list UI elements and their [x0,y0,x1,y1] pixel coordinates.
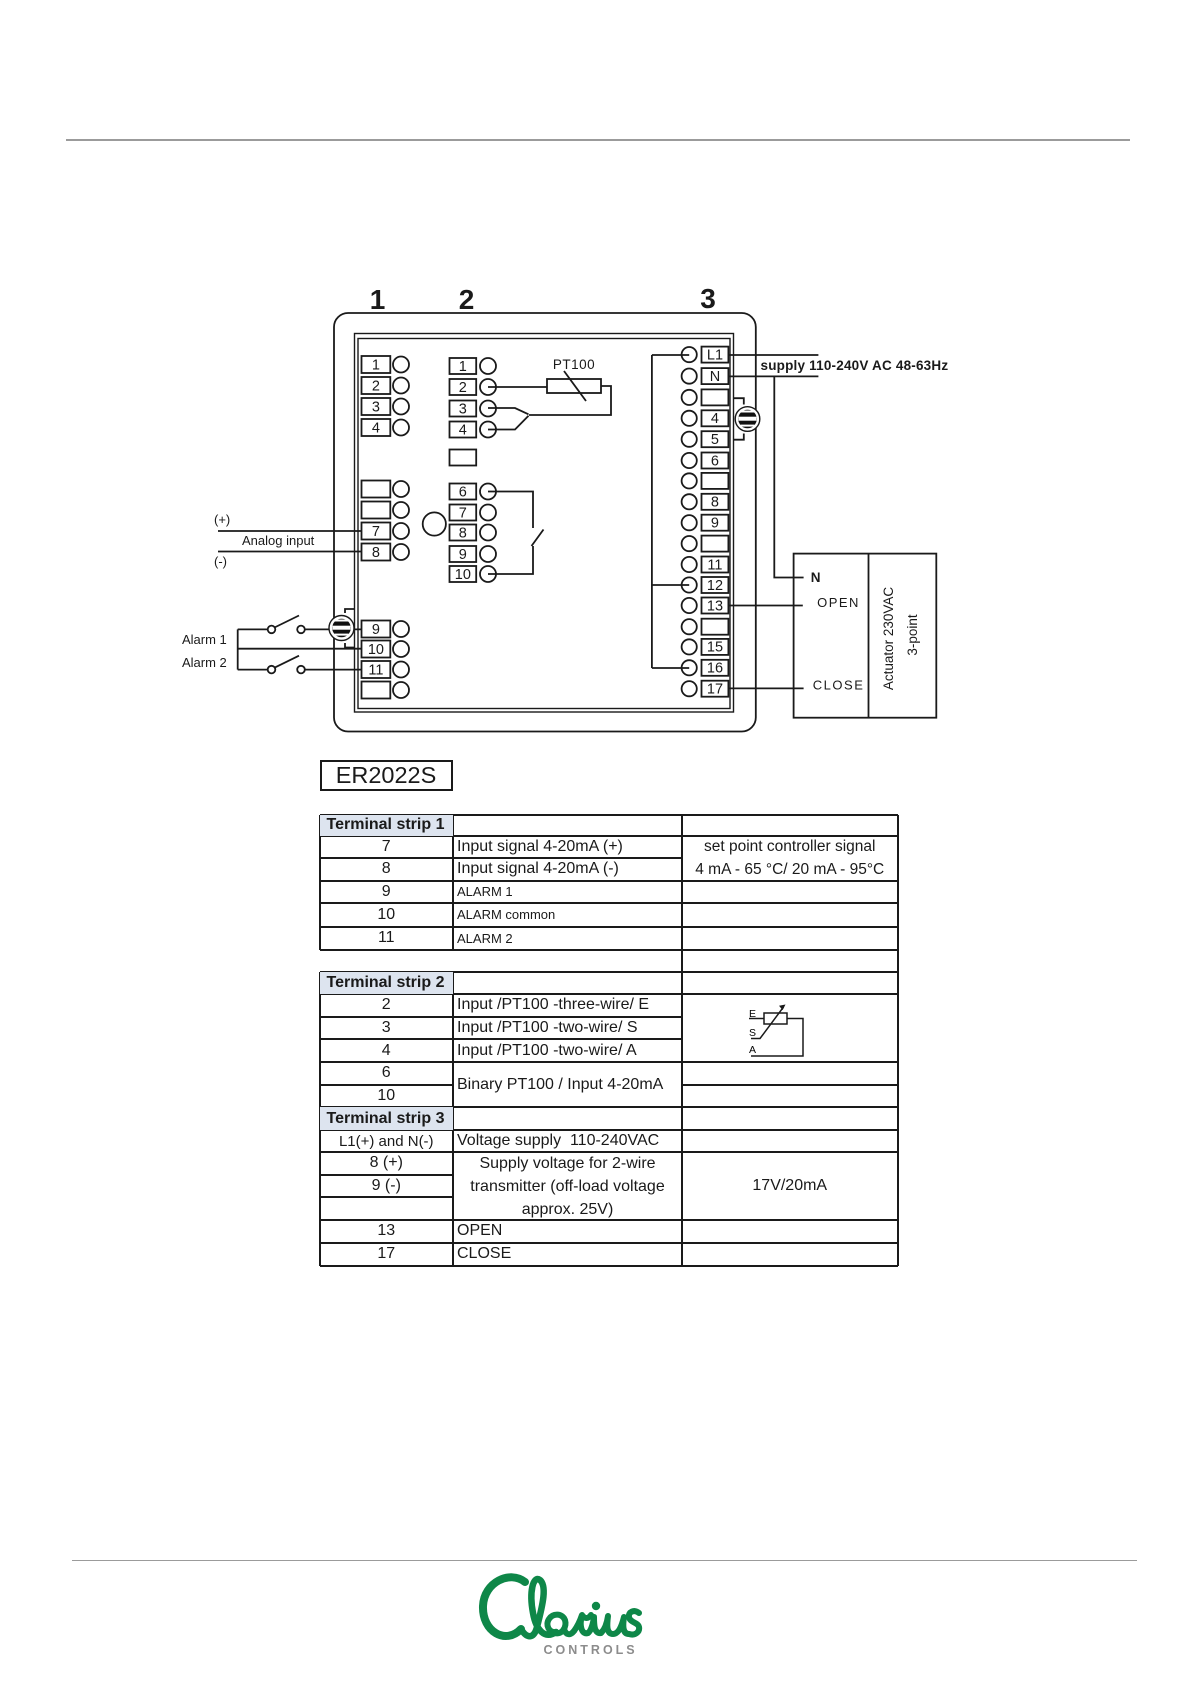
switch alarm2 left contact [268,666,276,674]
terminal 3-blank [682,536,729,552]
ER2022S type label box [320,760,453,791]
wire switch to terminal 1-11 [305,669,362,671]
cell input signal + [453,836,682,859]
svg-text:Alarm 2: Alarm 2 [182,655,227,670]
svg-text:9: 9 [459,547,467,563]
svg-text:9: 9 [372,622,380,638]
terminal 1-8 [362,544,410,561]
controller inner panel (double border) [355,334,734,713]
svg-text:Actuator 230VAC: Actuator 230VAC [881,587,896,691]
switch alarm2 blade [275,656,300,668]
svg-text:17: 17 [707,682,723,698]
terminal 3-blank [682,619,729,635]
actuator box [794,554,937,718]
table row line 8/9 col1 [320,1174,454,1176]
terminal 1-3 [362,398,410,415]
sensor wire right [751,1019,803,1057]
wire analog input (+) to terminal 1-7 [218,530,362,532]
terminal 1-9 [362,621,410,638]
terminal 3-blank [682,473,729,489]
indicator circle between strips [423,512,446,535]
sensor arrow head [779,1005,786,1011]
table row line y=971.5 [320,971,898,973]
terminal 2-9 [450,546,497,562]
wire L1 to supply [728,354,818,356]
wire switch to terminal 1-9 [305,628,362,630]
wire bus stub to terminal 3-L1 [652,354,689,356]
table row line y=1265.5 [320,1265,898,1267]
svg-text:1: 1 [459,359,467,375]
svg-text:12: 12 [707,578,723,594]
cell input signal - [453,858,682,881]
cell 17 [320,1243,454,1266]
terminal 3-4 [682,410,729,426]
wire terminal 2-2 to PT100 [488,386,547,388]
table right border [897,815,899,1266]
cell 11 [320,927,454,950]
terminal 2-2 [450,379,497,395]
wire switch to terminal 2-10 [488,546,533,574]
svg-text:4: 4 [711,411,719,427]
cell set point controller signal [682,836,898,881]
svg-text:11: 11 [368,662,383,678]
terminal 3-13 [682,598,729,614]
wire terminal 3-17 to actuator CLOSE [728,687,803,689]
wire terminal 3-13 to actuator OPEN [728,605,802,607]
svg-text:3: 3 [700,283,716,314]
table row line y=880.5 [320,880,898,882]
table row line y=815 [320,814,898,816]
terminal 2-blank (no circle) [450,450,477,466]
switch alarm1 right contact [297,626,305,634]
table left border upper [319,815,321,950]
cell 10 [320,903,454,927]
svg-text:3: 3 [459,401,467,417]
cell ALARM 2 [453,927,682,950]
screw fixing left [329,609,355,648]
wire alarm common to terminal 1-10 [238,648,362,650]
svg-text:CLOSE: CLOSE [813,678,865,693]
wire terminal 2-3 to junction [488,408,529,414]
svg-text:3-point: 3-point [905,614,920,656]
header rule [66,139,1130,141]
terminal 2-3 [450,401,497,417]
logo letter i [588,1617,601,1633]
terminal 1-blank [362,481,410,498]
table row line 6/10 col3 [682,1084,898,1086]
svg-text:Analog input: Analog input [242,533,315,548]
screw fixing right [734,398,760,440]
table row line 7/8 (cols 1-2) [320,857,683,859]
svg-text:10: 10 [368,642,384,658]
svg-text:4: 4 [372,420,380,436]
terminal 3-L1 [682,347,729,363]
svg-text:3: 3 [372,399,380,415]
table row line y=903 [320,902,898,904]
terminal 3-17 [682,681,729,697]
terminal 3-6 [682,453,729,469]
sensor arrow diagonal [751,1007,784,1039]
terminal 3-blank [682,389,729,405]
footer rule [72,1560,1137,1562]
actuator divider [868,554,870,718]
cell PT100 three-wire E [453,994,682,1017]
wire bus stub to terminal 3-16 [652,667,689,669]
terminal 1-blank [362,502,410,519]
terminal 3-N [682,368,729,384]
table col2/col3 divider [681,815,683,1266]
table row line y=1152 [320,1151,898,1153]
table row line y=835.5 [320,835,898,837]
table row line 6/10 col1 [320,1084,454,1086]
svg-text:N: N [710,369,720,385]
terminal 3-9 [682,515,729,531]
terminal 3-11 [682,557,729,573]
wire alarm1 to switch [238,628,268,630]
table left border lower [319,972,321,1266]
svg-text:8: 8 [711,495,719,511]
svg-text:PT100: PT100 [553,357,595,372]
wire analog input (-) to terminal 1-8 [218,551,362,553]
svg-text:10: 10 [455,567,471,583]
cell 4 [320,1039,454,1062]
cell 2 [320,994,454,1017]
wire N to supply [728,375,818,377]
terminal 2-10 [450,566,497,582]
svg-text:N: N [811,570,821,585]
switch blade (binary input) [532,530,544,547]
terminal 1-4 [362,419,410,436]
logo letter s [629,1611,639,1634]
cell 10 strip2 [320,1085,454,1108]
table col1/col2 divider upper [452,815,454,950]
table row line 3/4 (cols 1-2) [320,1038,683,1040]
cell 6 [320,1062,454,1085]
svg-text:1: 1 [372,357,380,373]
logo letter C [483,1577,525,1636]
table header Terminal strip 3 [320,1107,454,1130]
table row line y=994 [320,993,898,995]
cell 13 [320,1220,454,1243]
wire bus stub to terminal 3-12 [652,584,689,586]
wire terminal 2-4 to junction [488,416,529,430]
cell PT100 two-wire S [453,1017,682,1040]
cell 17V 20mA [682,1152,898,1220]
table header Terminal strip 1 [320,815,454,836]
wire N down to actuator [774,376,803,577]
table row line y=926.9 [320,926,898,928]
svg-text:9: 9 [711,516,719,532]
svg-text:5: 5 [711,432,719,448]
svg-text:7: 7 [459,505,467,521]
wire bus L1-12-16 vertical [651,355,653,668]
cell ALARM common [453,903,682,927]
table row line 9/blank col1 [320,1196,454,1198]
cell 7 [320,836,454,859]
svg-text:4: 4 [459,422,467,438]
table row line y=1130 [320,1129,898,1131]
svg-text:(+): (+) [214,512,230,527]
terminal 2-7 [450,505,497,521]
cell binary PT100 [453,1062,682,1107]
svg-text:S: S [749,1027,756,1039]
sensor wire E [749,1018,764,1020]
sensor resistor body [764,1013,787,1024]
cell supply voltage 2-wire [453,1152,682,1220]
svg-text:Alarm 1: Alarm 1 [182,632,227,647]
sensor symbol PT100 connection [682,994,897,1062]
svg-text:11: 11 [707,557,722,573]
logo letter u [601,1616,629,1634]
switch alarm2 right contact [297,666,305,674]
logo letter r [574,1615,591,1631]
terminal 1-7 [362,523,410,540]
table row line y=1242.5 [320,1242,898,1244]
switch alarm1 blade [275,616,300,628]
wire alarm bus vertical [237,629,239,669]
terminal 3-8 [682,494,729,510]
cell PT100 two-wire A [453,1039,682,1062]
wiring diagram [170,280,960,740]
table col1/col2 divider lower [452,972,454,1266]
svg-text:7: 7 [372,524,380,540]
svg-text:15: 15 [707,640,723,656]
cell CLOSE [453,1243,682,1266]
switch alarm1 left contact [268,626,276,634]
wire PT100 right to junction [529,386,611,415]
resistor PT100 [547,379,601,393]
svg-text:13: 13 [707,598,723,614]
cell 9 [320,881,454,904]
table row line y=1107 [320,1106,898,1108]
svg-text:2: 2 [459,284,475,315]
table row line 2/3 (cols 1-2) [320,1016,683,1018]
svg-text:6: 6 [459,484,467,500]
terminal 1-2 [362,377,410,394]
cell 8 [320,858,454,881]
terminal 3-12 [682,577,729,593]
table row line y=1062 [320,1061,898,1063]
svg-text:2: 2 [372,378,380,394]
table header Terminal strip 2 [320,972,454,995]
svg-text:6: 6 [711,453,719,469]
svg-text:8: 8 [372,545,380,561]
svg-text:A: A [749,1044,756,1056]
terminal 1-10 [362,641,410,658]
terminal 1-blank [362,682,410,699]
terminal 2-8 [450,525,497,541]
svg-text:L1: L1 [707,347,723,363]
cell 8+ [320,1152,454,1175]
cell 3 [320,1017,454,1040]
cell L1 and N [320,1130,454,1152]
terminal 2-4 [450,422,497,438]
cell voltage supply [453,1130,682,1152]
terminal 2-1 [450,358,497,374]
logo letter l [521,1579,556,1636]
controller case outline [334,313,756,732]
svg-text:1: 1 [370,284,386,315]
logo letter o [547,1615,565,1634]
wire alarm2 to switch [238,669,268,671]
svg-text:supply 110-240V AC 48-63Hz: supply 110-240V AC 48-63Hz [761,358,949,373]
cell 9- [320,1175,454,1198]
svg-text:OPEN: OPEN [817,595,860,610]
table row line y=1220 [320,1219,898,1221]
Clorius logo script [400,1520,800,1684]
PT100 diagonal stroke [564,371,586,401]
wire terminal 2-6 to switch [488,492,533,529]
terminal 1-1 [362,356,410,373]
terminal 3-16 [682,660,729,676]
terminal 1-11 [362,661,410,678]
svg-text:16: 16 [707,661,723,677]
table row line y=950 [320,949,898,951]
terminal 3-15 [682,639,729,655]
terminal 2-6 [450,484,497,500]
terminal 3-5 [682,431,729,447]
cell ALARM 1 [453,881,682,904]
svg-text:(-): (-) [214,554,227,569]
svg-text:8: 8 [459,525,467,541]
Clorius logo CONTROLS [544,1643,638,1657]
cell OPEN [453,1220,682,1243]
svg-text:2: 2 [459,380,467,396]
